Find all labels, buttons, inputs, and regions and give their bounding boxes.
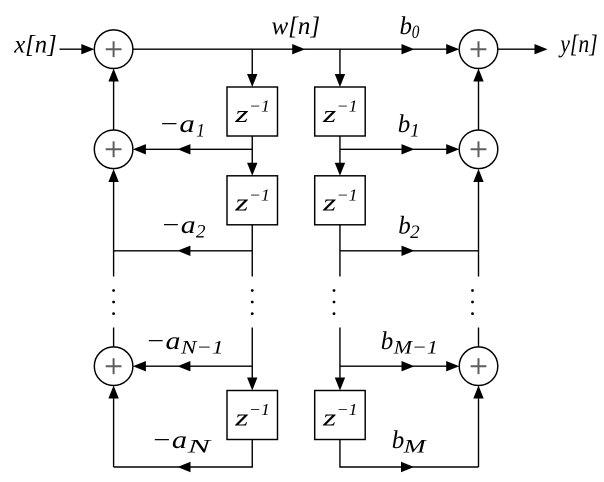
svg-text:x[n]: x[n] bbox=[13, 31, 57, 58]
svg-text:−1: −1 bbox=[249, 97, 270, 116]
arrowhead gain bM mid bottom row bbox=[401, 462, 414, 472]
svg-text:−1: −1 bbox=[337, 185, 358, 204]
wire node w to right delay column (vertical drop) bbox=[339, 49, 341, 81]
svg-text:b: b bbox=[398, 213, 411, 240]
wire node w to left delay column (vertical drop) bbox=[251, 49, 253, 81]
arrowhead input into A1 bbox=[81, 44, 94, 54]
wire input x[n] to adder A1 bbox=[60, 48, 89, 50]
wire L column resume below dots through aN-1 junction to L3 top bbox=[251, 328, 253, 385]
wire L1 bottom to L2 top bbox=[251, 136, 253, 170]
wire feedforward row b1: R column to B2 bbox=[340, 148, 453, 150]
svg-text:b: b bbox=[398, 111, 411, 138]
plus sign B3 bbox=[471, 358, 487, 374]
arrowhead gain -a2 mid bbox=[177, 246, 190, 256]
arrowhead down into R1 bbox=[335, 74, 345, 87]
wire feedforward row bM-1: R column to B3 bbox=[340, 365, 453, 367]
svg-text:w[n]: w[n] bbox=[272, 13, 321, 40]
svg-text:z: z bbox=[234, 405, 250, 431]
svg-text:−a: −a bbox=[161, 212, 196, 239]
adder B1 top-right sum junction bbox=[459, 30, 498, 69]
arrowhead up into A3 bottom bbox=[108, 386, 118, 399]
arrowhead gain -aN-1 mid bbox=[177, 361, 190, 371]
plus sign B2 bbox=[471, 141, 487, 157]
wire right adder column row2 vertical down to gap bbox=[478, 175, 480, 277]
svg-text:y[n]: y[n] bbox=[558, 31, 598, 58]
arrowhead up into B3 bottom bbox=[473, 386, 483, 399]
svg-text:z: z bbox=[322, 191, 338, 217]
arrowhead gain -aN mid bottom row bbox=[178, 462, 191, 472]
svg-text:2: 2 bbox=[196, 222, 206, 243]
wire R column resume below dots through bM-1 junction to R3 top bbox=[339, 328, 341, 385]
arrowhead up into B2 bottom bbox=[473, 169, 483, 182]
arrowhead down into L2 bbox=[247, 163, 257, 176]
svg-text:N−1: N−1 bbox=[180, 337, 224, 358]
arrowhead down into R3 bbox=[335, 378, 345, 391]
wire B1 to output y[n] bbox=[498, 48, 541, 50]
svg-text:z: z bbox=[322, 102, 338, 128]
wire R2 bottom down to gap bbox=[339, 225, 341, 277]
svg-text:z: z bbox=[234, 102, 250, 128]
adder A1 top-left sum junction bbox=[94, 30, 133, 69]
svg-text:b: b bbox=[392, 427, 405, 454]
svg-text:−a: −a bbox=[145, 328, 180, 355]
wire L3 bottom down and left along bottom row aN bbox=[114, 440, 253, 468]
wire L2 bottom down to gap bbox=[251, 225, 253, 277]
plus sign B1 bbox=[471, 41, 487, 57]
svg-text:M−1: M−1 bbox=[393, 337, 438, 358]
svg-text:1: 1 bbox=[410, 120, 420, 141]
delay box L1 z^-1 bbox=[227, 87, 278, 136]
arrowhead down into R2 bbox=[335, 163, 345, 176]
svg-text:−a: −a bbox=[151, 427, 187, 454]
svg-text:z: z bbox=[322, 405, 338, 431]
arrowhead down into L1 bbox=[247, 74, 257, 87]
arrowhead output y[n] bbox=[535, 44, 548, 54]
vertical ellipsis dots A column bbox=[112, 289, 115, 292]
wire A column resume below dots to A3 top bbox=[113, 328, 115, 347]
arrowhead gain b2 mid bbox=[402, 246, 415, 256]
arrowhead into A2 right bbox=[133, 144, 146, 154]
wire B column resume below dots to B3 top bbox=[478, 328, 480, 347]
vertical ellipsis dots B column bbox=[471, 289, 474, 292]
svg-text:−1: −1 bbox=[337, 400, 358, 419]
vertical ellipsis dots R column bbox=[333, 289, 336, 292]
arrowhead into B2 left bbox=[446, 144, 459, 154]
svg-text:−a: −a bbox=[159, 111, 195, 138]
delay box R1 z^-1 bbox=[315, 87, 366, 136]
wire A1 to B1 main top line through w[n] node bbox=[133, 48, 453, 50]
vertical ellipsis dots L column bbox=[251, 289, 254, 292]
delay box R2 z^-1 bbox=[315, 176, 366, 225]
svg-text:1: 1 bbox=[196, 120, 205, 141]
wire A column bottom row up into A3 bbox=[113, 392, 115, 468]
wire feedforward row b2: R column to B column bbox=[340, 250, 479, 252]
wire B column bottom row up into B3 bbox=[478, 392, 480, 468]
adder B2 sum junction row b1 bbox=[459, 130, 498, 169]
wire feedback row a1: L column to A2 bbox=[139, 148, 252, 150]
wire R1 bottom to R2 top bbox=[339, 136, 341, 170]
plus sign A3 bbox=[106, 358, 122, 374]
svg-text:−1: −1 bbox=[249, 185, 270, 204]
delay box R3 z^-1 bbox=[315, 391, 366, 440]
adder B3 sum junction row bM-1 bbox=[459, 347, 498, 386]
arrowhead gain b1 mid bbox=[402, 144, 415, 154]
arrowhead up into B1 bottom bbox=[473, 69, 483, 82]
arrowhead up into A1 bottom bbox=[108, 69, 118, 82]
adder A3 sum junction row aN-1 bbox=[94, 347, 133, 386]
svg-text:z: z bbox=[234, 191, 250, 217]
arrowhead gain -a1 mid bbox=[177, 144, 190, 154]
wire B2 top to B1 bottom bbox=[478, 75, 480, 130]
svg-text:−1: −1 bbox=[337, 97, 358, 116]
plus sign A1 bbox=[106, 41, 122, 57]
arrowhead up into A2 bottom bbox=[108, 169, 118, 182]
svg-text:N: N bbox=[186, 437, 213, 458]
wire R3 bottom down and right along bottom row bM bbox=[340, 440, 479, 468]
arrowhead down into L3 bbox=[247, 378, 257, 391]
svg-text:2: 2 bbox=[410, 222, 420, 243]
wire A2 top to A1 bottom bbox=[113, 75, 115, 130]
adder A2 sum junction row a1 bbox=[94, 130, 133, 169]
plus sign A2 bbox=[106, 141, 122, 157]
arrowhead mid top line at w node bbox=[292, 44, 305, 54]
svg-text:0: 0 bbox=[412, 22, 420, 43]
delay box L3 z^-1 bbox=[227, 391, 278, 440]
arrowhead gain b0 on top line bbox=[402, 44, 415, 54]
wire left column row2 vertical down to gap bbox=[113, 175, 115, 277]
wire feedback row a2: L column to A column bbox=[114, 250, 253, 252]
svg-text:b: b bbox=[400, 13, 413, 40]
svg-text:b: b bbox=[381, 328, 394, 355]
arrowhead into B1 left bbox=[446, 44, 459, 54]
delay box L2 z^-1 bbox=[227, 176, 278, 225]
svg-text:−1: −1 bbox=[249, 400, 270, 419]
svg-text:M: M bbox=[402, 437, 427, 458]
arrowhead into B3 left bbox=[446, 361, 459, 371]
wire feedback row aN-1: L column to A3 bbox=[139, 365, 252, 367]
arrowhead into A3 right bbox=[133, 361, 146, 371]
arrowhead gain bM-1 mid bbox=[402, 361, 415, 371]
